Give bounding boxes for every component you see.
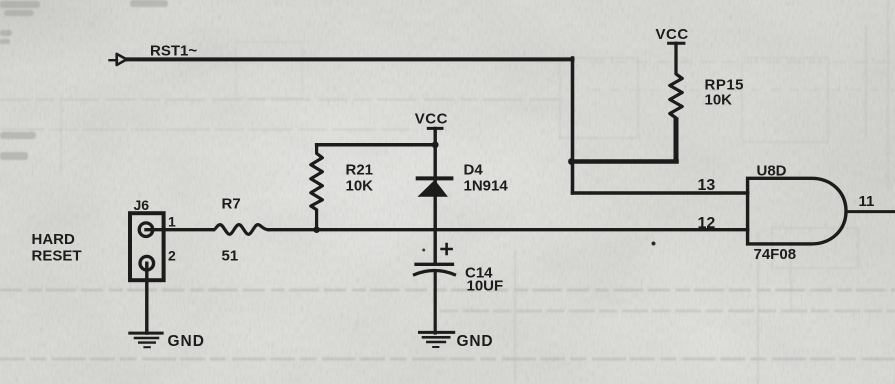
svg-text:HARD: HARD (32, 231, 75, 248)
svg-text:R7: R7 (222, 196, 241, 213)
svg-text:RST1~: RST1~ (150, 43, 197, 60)
svg-text:11: 11 (859, 193, 875, 210)
svg-text:VCC: VCC (656, 26, 689, 43)
svg-text:1N914: 1N914 (464, 178, 509, 195)
svg-text:VCC: VCC (415, 111, 448, 128)
svg-text:R21: R21 (346, 162, 374, 179)
svg-text:10K: 10K (705, 91, 733, 108)
svg-text:12: 12 (698, 215, 716, 232)
svg-text:D4: D4 (464, 162, 484, 179)
svg-text:U8D: U8D (757, 163, 787, 180)
svg-text:51: 51 (222, 248, 239, 265)
svg-text:GND: GND (168, 333, 205, 350)
svg-text:GND: GND (457, 333, 494, 350)
svg-text:74F08: 74F08 (754, 246, 797, 263)
svg-text:13: 13 (698, 177, 716, 194)
svg-text:2: 2 (168, 248, 176, 264)
svg-text:10UF: 10UF (467, 278, 504, 295)
svg-text:10K: 10K (346, 177, 374, 194)
svg-text:1: 1 (168, 214, 176, 230)
svg-text:J6: J6 (134, 197, 150, 213)
svg-text:RESET: RESET (32, 248, 82, 265)
